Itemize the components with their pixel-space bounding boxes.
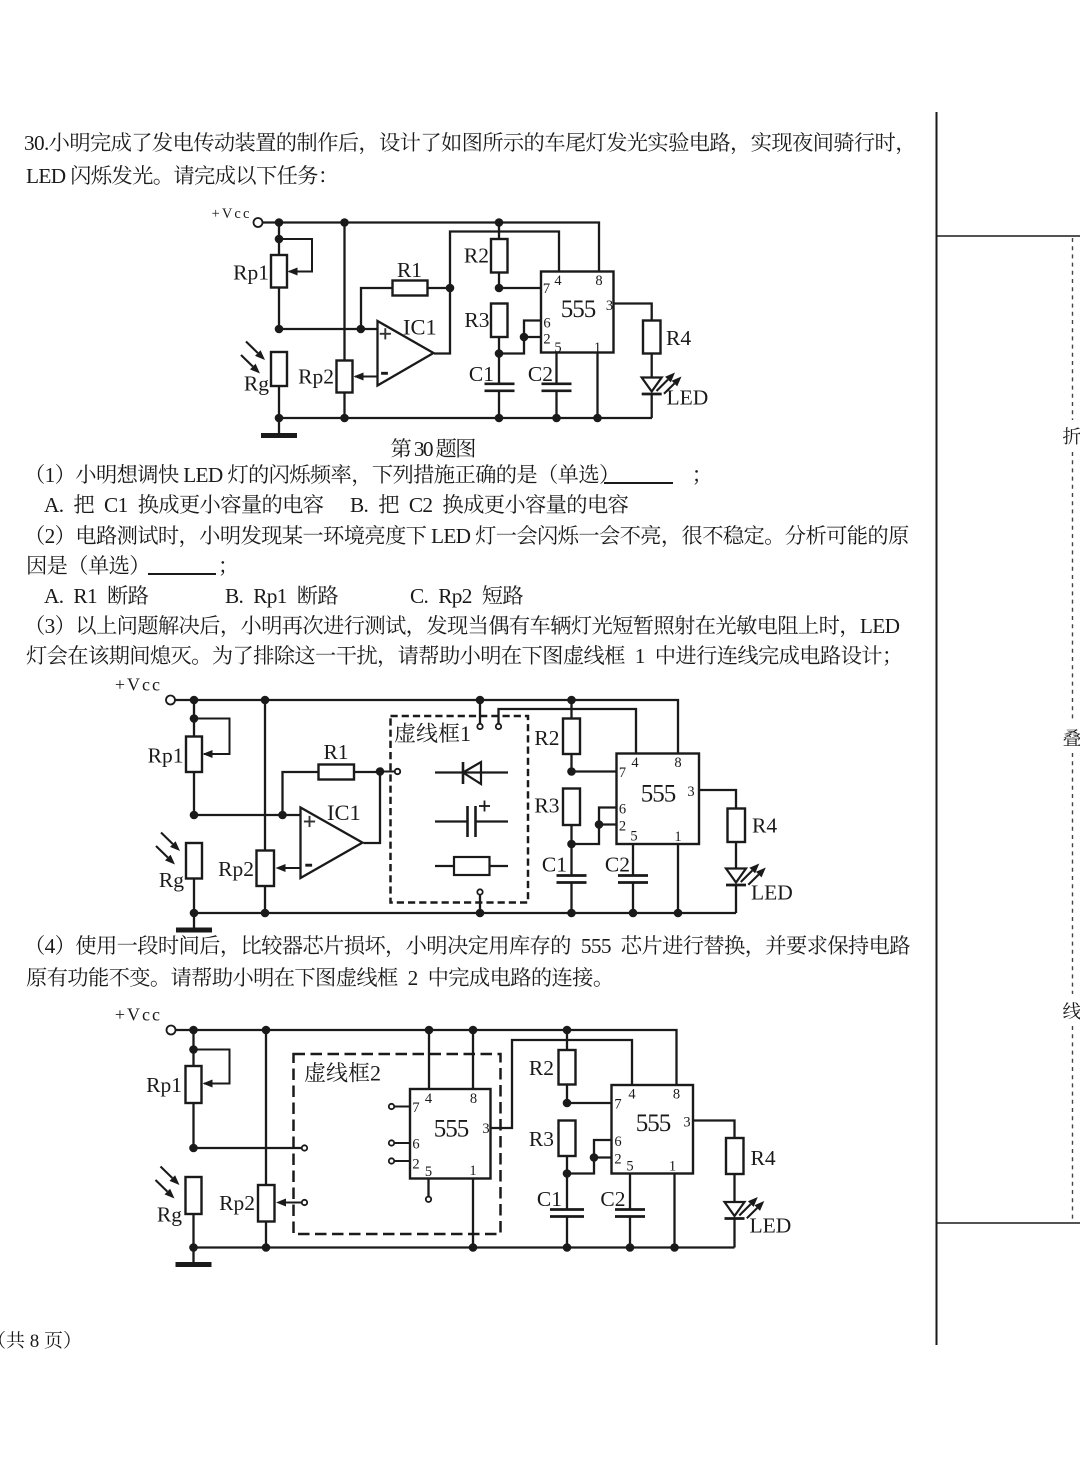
- svg-text:6: 6: [412, 1137, 419, 1153]
- wire Rp2 wiper to box2 terminal circuit3: [276, 1199, 307, 1207]
- svg-text:R3: R3: [529, 1127, 554, 1151]
- potentiometer Rp2 circuit3: [219, 1030, 274, 1248]
- node left terminal of dashed box1: [395, 769, 400, 774]
- pin 4 label circuit1: [554, 273, 562, 289]
- main pin labels circuit3: [628, 1087, 636, 1103]
- pin 2 label circuit2: [619, 819, 626, 835]
- svg-text:7: 7: [543, 281, 550, 297]
- svg-text:8: 8: [595, 273, 602, 289]
- wire +Vcc top rail circuit3: [176, 1026, 677, 1085]
- node terminal B (to pin4) circuit2: [496, 724, 501, 729]
- svg-text:4: 4: [628, 1087, 636, 1103]
- svg-text:6: 6: [543, 316, 550, 332]
- wire spare pin3 to main pin4 circuit3: [491, 1040, 633, 1128]
- label dashed box 2: [304, 1061, 381, 1086]
- resistor R1 circuit2: [283, 740, 381, 815]
- node +Vcc terminal circuit1: [212, 206, 263, 227]
- svg-text:IC1: IC1: [327, 800, 361, 825]
- wire pins 6-2 link circuit3: [567, 1140, 612, 1174]
- wire pin7 circuit3: [567, 1102, 612, 1104]
- wire +Vcc top rail circuit2: [175, 696, 678, 754]
- capacitor C1 circuit3: [537, 1174, 584, 1248]
- pin 4 label circuit2: [631, 755, 639, 771]
- svg-text:LED: LED: [750, 1214, 792, 1238]
- pin 3 label circuit2: [687, 784, 694, 800]
- wire inverting input to Rp2 wiper circuit2: [276, 864, 301, 872]
- svg-text:R4: R4: [751, 1146, 776, 1170]
- wire pin7 circuit2: [572, 770, 617, 772]
- pin 8 label circuit2: [674, 755, 681, 771]
- capacitor C2 circuit3: [600, 1174, 645, 1248]
- photoresistor Rg circuit3: [156, 1167, 202, 1248]
- svg-text:1: 1: [669, 1159, 676, 1175]
- IC 555 circuit2: [617, 754, 700, 845]
- svg-text:+Vcc: +Vcc: [115, 1005, 162, 1025]
- label dashed box 1: [394, 721, 471, 746]
- svg-text:5: 5: [425, 1164, 432, 1180]
- wire pin8 stub already in rail; pin 5/1 stubs circuit1: [596, 353, 598, 419]
- svg-text:4: 4: [631, 755, 639, 771]
- potentiometer Rp1 circuit2: [148, 700, 230, 815]
- svg-text:4: 4: [554, 273, 562, 289]
- wire non-inverting input node circuit2: [190, 811, 301, 820]
- spare electrolytic capacitor in box1: [435, 801, 508, 838]
- pin 2 label circuit1: [543, 332, 550, 348]
- svg-text:线: 线: [1062, 997, 1080, 1024]
- spare diode in box1: [435, 762, 508, 784]
- resistor R4 circuit1: [643, 321, 691, 354]
- dashed box 1: [391, 716, 529, 903]
- svg-text:R2: R2: [529, 1056, 554, 1080]
- resistor R3 circuit1: [464, 304, 507, 358]
- pin 1 label circuit2: [674, 829, 681, 845]
- pin 7 label circuit2: [619, 765, 626, 781]
- svg-text:R3: R3: [464, 308, 489, 332]
- svg-text:Rp1: Rp1: [233, 261, 269, 285]
- svg-text:8: 8: [674, 755, 681, 771]
- svg-text:6: 6: [614, 1134, 621, 1150]
- wire non-inverting input node circuit1: [275, 325, 378, 334]
- svg-text:2: 2: [619, 819, 626, 835]
- op-amp IC1: [378, 315, 437, 386]
- spare pin 7 stub and terminal: [389, 1104, 410, 1109]
- spare resistor in box1: [435, 857, 508, 875]
- wire pin3 to R4 circuit3: [693, 1121, 735, 1139]
- resistor R3 circuit3: [529, 1121, 576, 1178]
- spare pin 2 stub and terminal: [389, 1158, 410, 1163]
- dashed box 2: [294, 1054, 501, 1234]
- svg-text:+Vcc: +Vcc: [115, 675, 162, 695]
- svg-text:C2: C2: [600, 1187, 625, 1211]
- capacitor C1 circuit2: [542, 844, 587, 913]
- svg-text:7: 7: [619, 765, 626, 781]
- IC 555 main circuit3: [612, 1085, 694, 1174]
- fold line: solid vertical margin rule: [936, 112, 938, 1345]
- IC 555 circuit1: [541, 272, 614, 353]
- svg-text:R4: R4: [752, 814, 777, 838]
- node bottom terminal of dashed box1: [477, 889, 482, 913]
- svg-text:LED: LED: [667, 386, 709, 410]
- svg-text:3: 3: [683, 1115, 690, 1131]
- wire +Vcc top rail circuit1: [263, 223, 600, 272]
- wire pin3 to R4 circuit2: [699, 790, 736, 809]
- svg-text:C1: C1: [537, 1187, 562, 1211]
- wire bottom rail circuit3: [194, 1243, 735, 1252]
- svg-text:C1: C1: [542, 853, 567, 877]
- potentiometer Rp1: [233, 223, 312, 330]
- wire pin1 stub circuit2: [677, 844, 679, 913]
- svg-text:Rp2: Rp2: [219, 1191, 255, 1215]
- pin 1 label circuit1: [594, 340, 601, 356]
- svg-text:折: 折: [1062, 422, 1080, 449]
- capacitor C1 circuit1: [469, 354, 515, 419]
- svg-text:5: 5: [630, 829, 637, 845]
- wire pin3 to R4 circuit1: [614, 304, 652, 321]
- svg-text:555: 555: [434, 1116, 469, 1143]
- svg-text:3: 3: [687, 784, 694, 800]
- capacitor C2 circuit1: [528, 353, 572, 419]
- LED circuit1: [642, 354, 709, 419]
- pin 7 label circuit1: [543, 281, 550, 297]
- pin 5 label circuit1: [554, 340, 561, 356]
- label fold char 线: [1062, 997, 1080, 1024]
- ground circuit1: [261, 414, 297, 436]
- svg-text:5: 5: [554, 340, 561, 356]
- spare pin labels: [412, 1100, 419, 1116]
- svg-text:Rp2: Rp2: [218, 857, 254, 881]
- svg-text:R3: R3: [534, 794, 559, 818]
- spare pin 1 stub to bottom rail: [472, 1179, 474, 1248]
- svg-text:Rg: Rg: [159, 868, 184, 892]
- potentiometer Rp2 circuit1: [298, 223, 377, 419]
- svg-text:1: 1: [469, 1163, 476, 1179]
- svg-text:Rg: Rg: [157, 1203, 182, 1227]
- pin 6 label circuit2: [619, 802, 626, 818]
- wire reset pin4 path with terminal circuit2: [499, 709, 637, 754]
- ground circuit3: [176, 1243, 212, 1264]
- svg-text:3: 3: [606, 298, 613, 314]
- svg-text:8: 8: [673, 1087, 680, 1103]
- junction top rail / Rp2: [340, 218, 349, 227]
- wire pins 6-2 link circuit2: [572, 808, 617, 845]
- svg-text:2: 2: [412, 1157, 419, 1173]
- svg-text:叠: 叠: [1062, 724, 1080, 751]
- label fold char 叠: [1062, 724, 1080, 751]
- svg-text:虚线框1: 虚线框1: [394, 721, 471, 746]
- LED circuit2: [726, 842, 793, 913]
- svg-text:8: 8: [470, 1091, 477, 1107]
- svg-text:IC1: IC1: [403, 315, 437, 340]
- spare pin 8 stub to rail: [472, 1030, 474, 1089]
- pin 8 label circuit1: [595, 273, 602, 289]
- spare pin 4 stub to rail: [428, 1030, 430, 1089]
- svg-text:R2: R2: [534, 726, 559, 750]
- resistor R4 circuit2: [728, 809, 778, 843]
- svg-text:555: 555: [636, 1110, 671, 1137]
- wire pin1 stub circuit3: [673, 1174, 675, 1248]
- svg-text:3: 3: [482, 1121, 489, 1137]
- svg-text:Rg: Rg: [244, 372, 269, 396]
- resistor R2 circuit2: [534, 700, 580, 776]
- svg-text:7: 7: [412, 1100, 419, 1116]
- potentiometer Rp1 circuit3: [146, 1030, 229, 1148]
- svg-text:1: 1: [674, 829, 681, 845]
- fold line: bottom horizontal rule: [937, 1222, 1080, 1224]
- node +Vcc terminal circuit2: [115, 675, 175, 705]
- fold line: dashed vertical with labels: [1072, 238, 1074, 1221]
- fold line: top horizontal rule: [937, 235, 1080, 237]
- spare IC 555 in box2: [410, 1089, 491, 1179]
- junction top rail / R2: [495, 218, 504, 227]
- wire pins 6-2 link circuit1: [499, 321, 541, 354]
- svg-text:R4: R4: [666, 326, 691, 350]
- resistor R1 circuit1: [361, 258, 450, 329]
- wire op-amp output up to R1 junction circuit2: [364, 772, 381, 844]
- capacitor C2 circuit2: [605, 844, 648, 913]
- spare pin 6 stub and terminal: [389, 1140, 410, 1145]
- LED circuit3: [725, 1174, 792, 1248]
- pin 5 label circuit2: [630, 829, 637, 845]
- svg-text:Rp1: Rp1: [146, 1073, 182, 1097]
- svg-text:5: 5: [626, 1159, 633, 1175]
- wire pin7 circuit1: [499, 287, 541, 289]
- photoresistor Rg circuit1: [241, 342, 287, 419]
- spare pin 5 stub and terminal: [426, 1179, 431, 1203]
- svg-text:Rp2: Rp2: [298, 365, 334, 389]
- junction top rail / Rp1: [275, 218, 284, 227]
- svg-text:LED: LED: [751, 881, 793, 905]
- svg-text:555: 555: [641, 781, 676, 808]
- svg-text:2: 2: [614, 1152, 621, 1168]
- wire op-amp output to pin4 path circuit1: [434, 232, 559, 354]
- pin 3 label circuit1: [606, 298, 613, 314]
- svg-text:R1: R1: [323, 740, 348, 764]
- node +Vcc terminal circuit3: [115, 1005, 176, 1035]
- svg-text:C1: C1: [469, 362, 494, 386]
- svg-text:Rp1: Rp1: [148, 744, 184, 768]
- svg-text:7: 7: [614, 1097, 621, 1113]
- svg-text:4: 4: [425, 1091, 433, 1107]
- svg-text:虚线框2: 虚线框2: [304, 1061, 381, 1086]
- label fold char 折: [1062, 422, 1080, 449]
- svg-text:R1: R1: [397, 258, 422, 282]
- svg-text:555: 555: [561, 296, 596, 323]
- ground circuit2: [176, 909, 212, 930]
- pin 6 label circuit1: [543, 316, 550, 332]
- svg-text:+Vcc: +Vcc: [212, 206, 252, 222]
- svg-text:2: 2: [543, 332, 550, 348]
- node terminal A (from Vcc) circuit2: [477, 700, 482, 729]
- resistor R4 circuit3: [726, 1138, 776, 1174]
- node output junction + terminal circuit2: [376, 767, 400, 776]
- resistor R2 circuit3: [529, 1030, 576, 1107]
- op-amp IC1 circuit2: [301, 800, 363, 878]
- svg-text:C2: C2: [528, 362, 553, 386]
- svg-text:6: 6: [619, 802, 626, 818]
- resistor R2 circuit1: [464, 223, 508, 293]
- svg-text:R2: R2: [464, 244, 489, 268]
- resistor R3 circuit2: [534, 789, 580, 849]
- wire divider junction to box2 terminal circuit3: [189, 1144, 307, 1153]
- wire bottom rail circuit2: [194, 909, 736, 918]
- svg-text:C2: C2: [605, 853, 630, 877]
- photoresistor Rg circuit2: [156, 833, 202, 914]
- wire bottom rail circuit1: [279, 414, 652, 423]
- potentiometer Rp2 circuit2: [218, 700, 274, 913]
